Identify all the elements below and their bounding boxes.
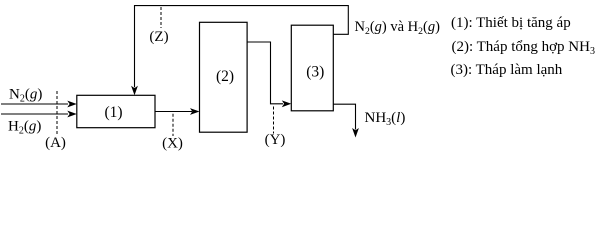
wire box2 to box3: [247, 42, 291, 107]
svg-text:(Z): (Z): [149, 29, 168, 45]
box U3 (3) Thap lam lanh: [291, 25, 333, 111]
wire NH3 output: [333, 104, 359, 137]
wire H2 feed: [1, 111, 77, 118]
svg-text:H2(g): H2(g): [8, 119, 41, 137]
svg-text:(A): (A): [45, 135, 66, 151]
wire box1 to box2: [155, 108, 200, 115]
dashed sample line (Y): [273, 107, 275, 134]
svg-text:N2(g): N2(g): [9, 87, 42, 105]
svg-text:(1): Thiết bị tăng áp: (1): Thiết bị tăng áp: [451, 15, 571, 31]
dashed sample line (Z): [160, 7, 162, 28]
svg-text:NH3(l): NH3(l): [365, 110, 406, 128]
svg-text:(X): (X): [162, 135, 183, 151]
svg-text:(Y): (Y): [265, 132, 286, 148]
wire recycle box3 to box1: [131, 6, 348, 96]
box U1 (1) Thiet bi tang ap: [77, 95, 155, 127]
box U2 (2) Thap tong hop NH3: [200, 22, 248, 132]
svg-text:N2(g) và H2(g): N2(g) và H2(g): [355, 19, 441, 37]
svg-text:(1): (1): [104, 104, 122, 121]
wire N2 feed: [1, 101, 77, 108]
svg-text:(3): Tháp làm lạnh: (3): Tháp làm lạnh: [451, 62, 563, 78]
dashed sample line (A): [56, 91, 58, 136]
svg-text:(2): (2): [216, 68, 234, 85]
svg-text:(2): Tháp tổng hợp NH3: (2): Tháp tổng hợp NH3: [452, 39, 595, 57]
dashed sample line (X): [172, 114, 174, 136]
svg-text:(3): (3): [306, 63, 324, 80]
